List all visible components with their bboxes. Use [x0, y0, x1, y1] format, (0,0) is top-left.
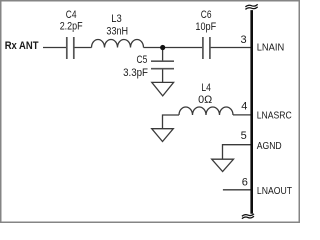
- svg-text:3: 3: [241, 34, 247, 46]
- svg-text:LNAOUT: LNAOUT: [257, 185, 293, 197]
- svg-text:C4: C4: [66, 9, 77, 21]
- svg-text:3.3pF: 3.3pF: [123, 67, 148, 79]
- svg-text:6: 6: [242, 177, 248, 189]
- svg-text:L3: L3: [111, 13, 122, 25]
- svg-text:C5: C5: [137, 54, 148, 66]
- svg-text:C6: C6: [201, 9, 212, 21]
- svg-text:L4: L4: [201, 82, 211, 94]
- svg-text:LNAIN: LNAIN: [257, 42, 285, 54]
- svg-text:LNASRC: LNASRC: [257, 110, 292, 122]
- svg-text:33nH: 33nH: [106, 26, 128, 38]
- svg-text:4: 4: [241, 101, 247, 113]
- svg-text:Rx ANT: Rx ANT: [5, 40, 39, 52]
- svg-text:5: 5: [241, 130, 247, 142]
- svg-text:2.2pF: 2.2pF: [60, 20, 83, 32]
- svg-text:10pF: 10pF: [195, 21, 216, 33]
- svg-text:0Ω: 0Ω: [198, 94, 212, 106]
- svg-text:AGND: AGND: [257, 140, 282, 152]
